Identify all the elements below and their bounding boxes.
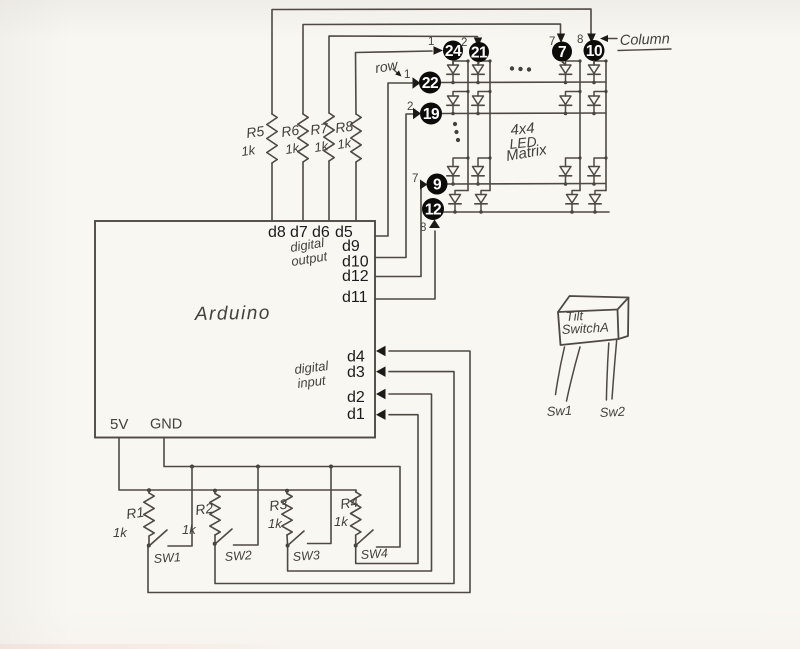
- wire d6 to R7 to column-2 top: [329, 36, 478, 221]
- pin label d2: [347, 389, 365, 406]
- LED row2 col1: [447, 90, 470, 115]
- pin label d4: [347, 349, 365, 366]
- svg-text:d11: d11: [342, 289, 368, 306]
- pin label d10: [342, 254, 369, 271]
- LED row8 col1: [449, 191, 468, 214]
- LED row8 col8: [589, 191, 606, 214]
- node pin 9 (row 7): [427, 174, 448, 195]
- svg-text:GND: GND: [150, 417, 182, 433]
- wire row 2: [442, 112, 606, 115]
- LED row7 col8: [588, 156, 608, 185]
- pin label d11: [342, 289, 368, 306]
- wire d8 to R5 to column-8 top: [272, 9, 591, 221]
- svg-text:R8: R8: [334, 118, 354, 136]
- wire switch SW2 junction to d3: [215, 366, 454, 583]
- wire column 8 anode bus: [605, 61, 607, 191]
- resistor R5: [240, 114, 277, 163]
- wire d11 to row-8 pin 12: [375, 220, 440, 300]
- wire row 1: [441, 81, 606, 84]
- wire switch SW3 junction to d2: [288, 389, 432, 571]
- wire row 7: [448, 183, 606, 186]
- svg-text:1k: 1k: [334, 514, 349, 529]
- svg-text:1k: 1k: [284, 140, 301, 157]
- LED row1 col8: [588, 59, 608, 84]
- resistor R2: [182, 491, 220, 546]
- svg-text:9: 9: [433, 177, 442, 194]
- svg-text:1k: 1k: [240, 142, 257, 159]
- arrow into column-1 pin 24: [434, 46, 444, 55]
- svg-text:5V: 5V: [110, 416, 128, 433]
- svg-text:R3: R3: [268, 496, 288, 514]
- label 4x4 LED Matrix: [505, 120, 549, 165]
- label pin number 2 (row 2): [407, 101, 413, 113]
- pin label d9: [342, 238, 360, 255]
- node pin 22 (row 1): [419, 72, 441, 94]
- label Sw1 (tilt leg 1): [546, 403, 572, 419]
- LED row2 col7: [559, 90, 581, 115]
- label pin number 8 (row 8): [420, 222, 426, 234]
- wire GND to SW3 contact: [308, 467, 332, 544]
- svg-text:Sw2: Sw2: [599, 404, 626, 420]
- svg-text:Column: Column: [620, 31, 670, 49]
- arrow into column-7 pin 7: [557, 34, 565, 44]
- wire pin21 to LED col2: [478, 62, 479, 65]
- svg-text:R7: R7: [309, 119, 330, 138]
- resistor R3: [268, 491, 292, 548]
- junction dots 5V rail: [147, 488, 289, 493]
- resistor R7: [309, 113, 334, 161]
- svg-text:21: 21: [471, 45, 488, 62]
- svg-text:SW2: SW2: [224, 548, 252, 564]
- LED row7 col1: [447, 156, 470, 185]
- svg-text:1k: 1k: [268, 516, 283, 531]
- wire pin24 to LED col1: [452, 61, 454, 66]
- label Sw2 (tilt leg 2): [599, 404, 626, 420]
- svg-text:row: row: [374, 56, 400, 76]
- resistor R6: [280, 114, 308, 162]
- node pin 10 (column 8): [584, 40, 605, 61]
- resistor R1: [113, 490, 154, 548]
- svg-text:d12: d12: [342, 268, 369, 285]
- svg-text:R2: R2: [194, 500, 214, 518]
- pin label 5V: [110, 416, 128, 433]
- matrix continuation dots vertical: [453, 122, 460, 142]
- svg-text:7: 7: [558, 44, 566, 61]
- label pin number 1 (column 1): [428, 36, 434, 48]
- node pin 12 (row 8): [422, 198, 444, 220]
- LED row8 col7: [566, 191, 580, 214]
- svg-text:1k: 1k: [113, 525, 128, 540]
- pin label d1: [347, 406, 365, 423]
- svg-text:24: 24: [445, 43, 462, 60]
- wire pin10 to LED col8: [593, 61, 595, 65]
- pin label d3: [347, 364, 365, 381]
- label digital input: [294, 358, 331, 391]
- svg-text:1k: 1k: [182, 522, 197, 537]
- Arduino board outline: [95, 221, 375, 438]
- label pin number 1 (row 1): [404, 69, 410, 81]
- svg-text:7: 7: [412, 173, 418, 185]
- svg-text:input: input: [297, 372, 328, 390]
- node pin 21 (column 2): [469, 42, 489, 62]
- label pin number 8 (column 8): [577, 34, 583, 46]
- svg-text:SW1: SW1: [153, 550, 181, 566]
- wire d5 to R8 to column-1 top: [356, 51, 433, 221]
- pin label d12: [342, 268, 369, 285]
- wire column 2 anode bus: [489, 61, 491, 191]
- svg-text:R4: R4: [339, 494, 359, 512]
- svg-text:8: 8: [577, 34, 583, 46]
- switch SW1: [149, 530, 181, 566]
- wire d12 to row-7 pin 9: [375, 180, 428, 277]
- LED row2 col2: [472, 90, 492, 115]
- node pin 7 (column 7): [552, 42, 572, 62]
- node pin 19 (row 2): [420, 103, 442, 125]
- svg-text:1: 1: [404, 69, 410, 81]
- label column with arrow: [600, 31, 671, 50]
- label Arduino: [194, 303, 271, 325]
- junction dots GND rail: [190, 465, 333, 469]
- tilt switch A: [556, 296, 629, 401]
- label pin number 7 (column 7): [549, 36, 555, 48]
- label pin number 7 (row 7): [412, 173, 418, 185]
- wire switch SW1 junction to d4: [148, 346, 470, 593]
- resistor R4: [334, 490, 361, 548]
- pin label d8 d7 d6 d5: [268, 224, 353, 241]
- wire pin7 to LED col7: [562, 62, 566, 66]
- LED row8 col2: [475, 191, 490, 214]
- arrow into column-8 pin 10: [587, 34, 596, 44]
- matrix continuation dots horizontal: [510, 66, 531, 71]
- svg-text:R1: R1: [125, 504, 145, 522]
- svg-text:R5: R5: [245, 123, 265, 141]
- wire switch SW4 junction to d1: [356, 409, 418, 563]
- LED row7 col2: [472, 156, 492, 185]
- svg-text:d2: d2: [347, 389, 365, 406]
- label pin number 2 (column 2): [461, 37, 467, 49]
- LED row1 col7: [559, 59, 581, 84]
- wire d9 to row-1 pin 22: [375, 77, 421, 236]
- svg-text:Arduino: Arduino: [194, 303, 271, 325]
- svg-text:d9: d9: [342, 238, 360, 255]
- LED row2 col8: [588, 90, 608, 115]
- svg-text:10: 10: [586, 43, 602, 60]
- pin label GND: [150, 417, 182, 433]
- switch SW4: [356, 530, 388, 562]
- svg-text:R6: R6: [280, 122, 300, 140]
- svg-text:12: 12: [425, 202, 441, 219]
- label row with arrow: [374, 56, 402, 76]
- wire 5V rail: [119, 438, 356, 491]
- wire column 7 anode bus: [579, 61, 581, 191]
- svg-text:SW4: SW4: [360, 546, 388, 562]
- svg-text:SwitchA: SwitchA: [561, 320, 609, 337]
- wire row 8: [444, 211, 609, 213]
- svg-text:22: 22: [422, 75, 438, 92]
- label digital output: [289, 235, 329, 269]
- svg-text:Sw1: Sw1: [546, 403, 572, 419]
- resistor R8: [334, 114, 361, 162]
- svg-text:d4: d4: [347, 349, 365, 366]
- svg-text:d3: d3: [347, 364, 365, 381]
- svg-text:SW3: SW3: [292, 548, 320, 564]
- LED row7 col7: [559, 156, 581, 185]
- svg-text:d1: d1: [347, 406, 365, 423]
- switch SW2: [215, 529, 252, 564]
- wire GND rail: [164, 438, 400, 548]
- svg-text:1: 1: [428, 36, 434, 48]
- LED row1 col1: [447, 59, 470, 84]
- LED row1 col2: [472, 59, 492, 84]
- wire GND to SW1 contact: [168, 467, 192, 547]
- wire d10 to row-2 pin 19: [375, 108, 421, 258]
- wire GND to SW2 contact: [234, 467, 259, 546]
- wire column 1 anode bus: [467, 61, 469, 191]
- svg-text:d8: d8: [268, 224, 286, 241]
- arrow into column-2 pin 21: [474, 38, 482, 48]
- switch SW3: [288, 531, 320, 564]
- wire d7 to R6 to column-7 top: [303, 24, 561, 221]
- svg-text:19: 19: [423, 106, 440, 123]
- node pin 24 (column 1): [443, 41, 463, 61]
- svg-text:2: 2: [407, 101, 413, 113]
